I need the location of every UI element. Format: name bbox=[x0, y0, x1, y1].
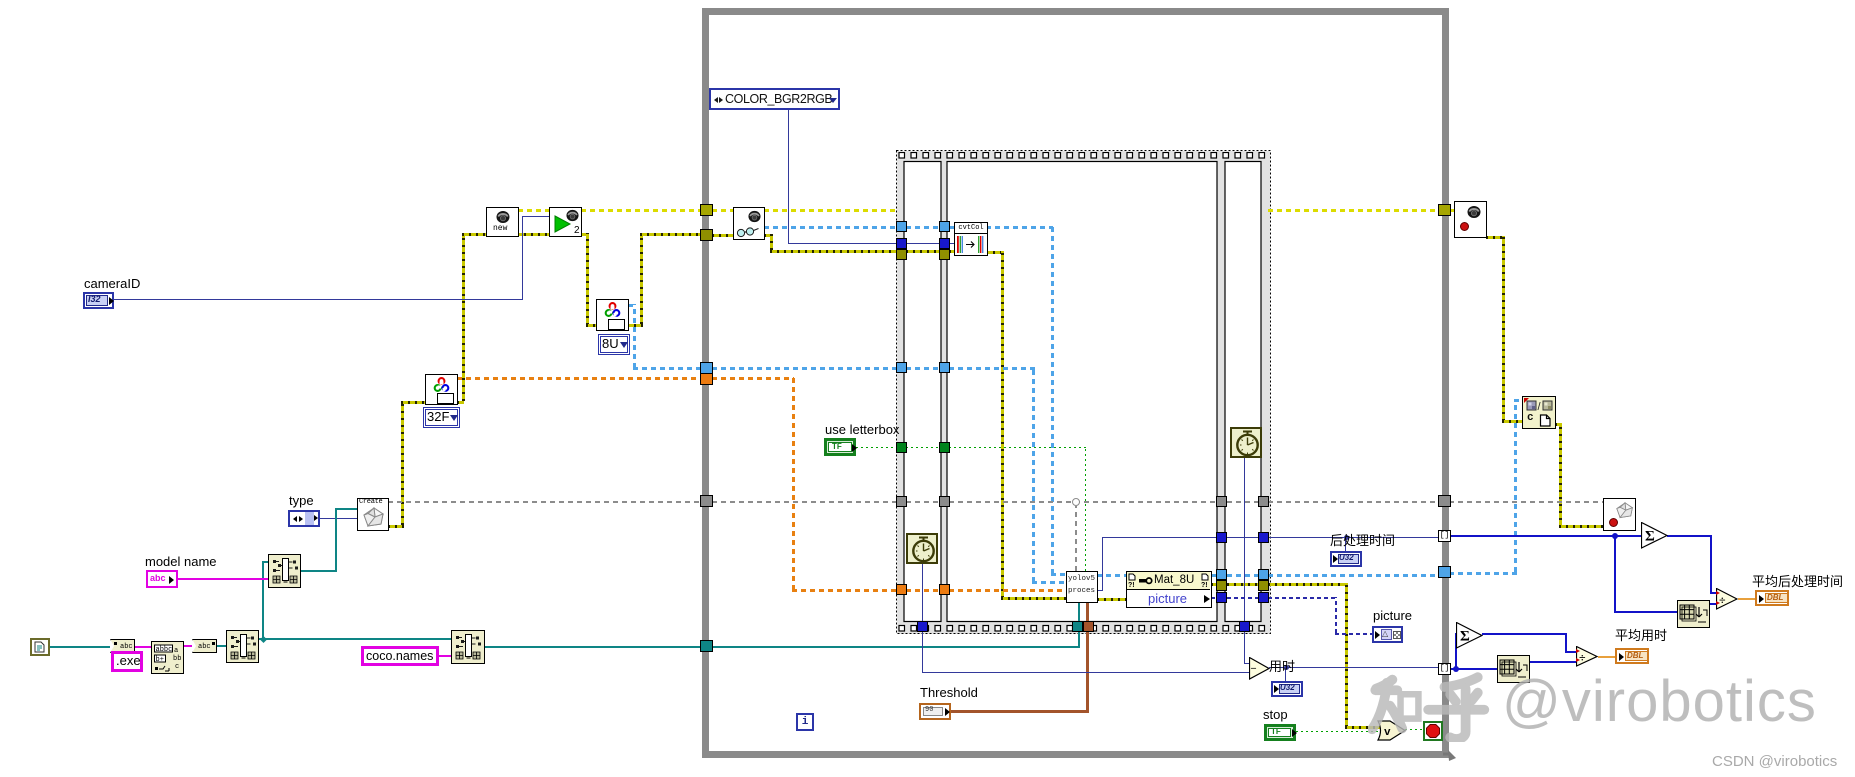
node yolov5 process bbox=[1066, 571, 1098, 603]
wire camera session new->start bbox=[518, 209, 549, 212]
tunnel enum seq separator1 bbox=[939, 238, 950, 249]
node convert to Mat 32F bbox=[425, 374, 458, 405]
node camera new bbox=[486, 207, 519, 237]
node sum1 add array elements bbox=[1641, 522, 1668, 549]
node yolov5 delete bbox=[1603, 498, 1636, 531]
node subtract 用时 bbox=[1249, 657, 1270, 680]
wire use letterbox bool bbox=[856, 447, 896, 448]
tunnel picture seq right edge bbox=[1258, 592, 1269, 603]
wire Mat image grab->cvtCol bbox=[764, 226, 896, 229]
svg-text:–: – bbox=[1250, 663, 1257, 674]
watermark @virobotics bbox=[1502, 669, 1817, 736]
loop indexing tunnel time bbox=[1438, 663, 1451, 675]
node divide2 bbox=[1576, 646, 1598, 667]
node camera release bbox=[1454, 201, 1487, 238]
node current VI path constant bbox=[30, 638, 50, 656]
wire cameraID bbox=[114, 299, 523, 300]
svg-text:c: c bbox=[175, 663, 179, 671]
wire coco.names pink bbox=[439, 655, 451, 657]
label 平均用时 bbox=[1615, 629, 1667, 644]
control type enum bbox=[289, 494, 314, 509]
tunnel threshold bottom band bbox=[1083, 621, 1094, 632]
wire model path teal bbox=[301, 570, 337, 572]
node strip path bbox=[226, 630, 259, 663]
wire camera session sequence->loop edge bbox=[1268, 209, 1440, 212]
wire subtract out 用时 bbox=[1269, 667, 1440, 668]
control cameraID I32 bbox=[84, 277, 140, 292]
wire replaced string pink bbox=[183, 645, 192, 647]
wire names array teal bbox=[485, 646, 703, 648]
flat sequence structure (film strip) bbox=[896, 150, 1271, 635]
indicator picture bbox=[1372, 626, 1403, 643]
node yolov5 create bbox=[357, 498, 389, 531]
wire camera session start->loop bbox=[581, 209, 703, 212]
tunnel error seq left edge bbox=[896, 249, 907, 260]
node sum2 add array elements bbox=[1456, 622, 1483, 649]
wire picture out dashed navy bbox=[1211, 597, 1217, 599]
tunnel Mat seq left edge y226 bbox=[896, 221, 907, 232]
tunnel clock2 bottom band bbox=[1239, 621, 1250, 632]
loop tunnel error left bbox=[700, 229, 713, 241]
while loop border bbox=[702, 8, 1449, 758]
wire post time array bbox=[1451, 535, 1641, 537]
wire threshold brown bbox=[951, 710, 1089, 713]
wire or out bbox=[1405, 729, 1423, 730]
loop corner resize glyph bbox=[1443, 750, 1457, 763]
label picture bbox=[1373, 609, 1412, 624]
svg-text:÷: ÷ bbox=[1719, 593, 1726, 607]
tunnel error out seq separator2 bbox=[1216, 580, 1227, 591]
loop tunnel 32F left bbox=[700, 373, 713, 385]
loop tunnel obj left bbox=[700, 495, 713, 507]
node tick count clock2 bbox=[1230, 427, 1262, 458]
wire clock1 to subtract bbox=[922, 564, 923, 672]
node string to path bbox=[192, 639, 217, 653]
loop tunnel Mat left bbox=[700, 362, 713, 374]
wire camera session loop->grab bbox=[712, 209, 733, 212]
node array size1 bbox=[1677, 600, 1710, 628]
wire folder path teal bbox=[259, 638, 451, 640]
constant coco.names bbox=[361, 646, 439, 666]
node Mat_8U picture cluster bbox=[1126, 571, 1212, 608]
indicator post-process time U32 bbox=[1330, 551, 1362, 567]
wire error close->delete bbox=[1555, 423, 1562, 426]
loop indexing tunnel posttime bbox=[1438, 530, 1451, 542]
tunnel Mat out seq separator2 bbox=[1216, 569, 1227, 580]
loop tunnel Mat right bbox=[1438, 566, 1451, 578]
node build model path bbox=[268, 554, 301, 588]
tunnel bool seq left edge bbox=[896, 442, 907, 453]
wire error from camera release bbox=[1486, 236, 1505, 239]
wire string->path teal bbox=[216, 645, 226, 647]
node cvtColor bbox=[954, 222, 988, 234]
tunnel bool seq separator1 bbox=[939, 442, 950, 453]
wire type enum navy bbox=[320, 518, 357, 519]
svg-text:b+: b+ bbox=[156, 656, 164, 664]
node path to string bbox=[110, 639, 135, 653]
loop tunnel obj right bbox=[1438, 495, 1451, 507]
constant .exe bbox=[111, 651, 143, 672]
loop condition terminal (stop sign) bbox=[1423, 721, 1443, 741]
label 后处理时间 bbox=[1330, 534, 1395, 549]
svg-text:?!: ?! bbox=[1201, 582, 1208, 588]
wire Mat image 8U convert bbox=[628, 304, 636, 307]
wire camera session grab->sequence bbox=[764, 209, 896, 212]
label 平均后处理时间 bbox=[1752, 575, 1843, 590]
control use letterbox boolean bbox=[825, 423, 899, 438]
control stop boolean bbox=[1263, 708, 1288, 723]
tunnel obj seq right edge bbox=[1258, 496, 1269, 507]
svg-text:÷: ÷ bbox=[1579, 651, 1586, 665]
node divide1 bbox=[1716, 588, 1738, 610]
wire model name pink bbox=[178, 578, 268, 580]
node search and replace string bbox=[151, 641, 184, 674]
tunnel 32F seq separator1 bbox=[939, 584, 950, 595]
tunnel posttime seq right edge bbox=[1258, 532, 1269, 543]
wire camera session ->release bbox=[1449, 209, 1455, 212]
loop tunnel camera session right bbox=[1438, 204, 1451, 216]
tunnel obj seq separator2 bbox=[1216, 496, 1227, 507]
tunnel error seq separator1 bbox=[939, 249, 950, 260]
tunnel posttime seq separator2 bbox=[1216, 532, 1227, 543]
node tick count clock1 bbox=[906, 533, 938, 564]
node read names file bbox=[451, 630, 485, 664]
iteration terminal i bbox=[796, 713, 814, 731]
tunnel names bottom band bbox=[1072, 621, 1083, 632]
indicator loop time U32 bbox=[1271, 681, 1303, 697]
wire 32F image DBL bbox=[457, 377, 703, 380]
wire size1 out bbox=[1709, 603, 1716, 605]
wire div1 out orange bbox=[1738, 598, 1755, 600]
indicator avg time DBL bbox=[1615, 648, 1649, 664]
label 用时 bbox=[1269, 660, 1295, 675]
node convert to Mat 8U bbox=[596, 299, 629, 331]
control model name string bbox=[145, 555, 217, 570]
wire yolov5 object refnum bbox=[388, 501, 703, 503]
wire error cluster chain bbox=[388, 525, 404, 528]
loop tunnel names left bbox=[700, 640, 713, 652]
node camera retrieve frame bbox=[733, 207, 765, 240]
svg-text:/: / bbox=[1538, 401, 1542, 412]
wire stop bool bbox=[1296, 731, 1380, 732]
wire div2 out orange bbox=[1598, 656, 1616, 658]
wire color code enum bbox=[788, 109, 789, 243]
tunnel clock1 bottom band bbox=[917, 621, 928, 632]
wire size2 out bbox=[1529, 661, 1576, 663]
svg-text:a: a bbox=[174, 647, 178, 655]
node array size2 bbox=[1497, 655, 1530, 683]
svg-text:Σ: Σ bbox=[1645, 529, 1655, 545]
wire Mat image cvtCol out bbox=[986, 226, 1053, 229]
dropdown 8U bbox=[598, 334, 630, 355]
wire process time out bbox=[1097, 590, 1103, 591]
node close Mat (c) bbox=[1522, 396, 1556, 429]
tunnel picture seq separator2 bbox=[1216, 592, 1227, 603]
tunnel Mat8U seq separator1 bbox=[939, 362, 950, 373]
wire clock2 to subtract bbox=[1244, 458, 1245, 663]
wire VI path bbox=[49, 646, 110, 648]
tunnel obj seq left edge bbox=[896, 496, 907, 507]
wire Mat image process->Mat_8U bbox=[1097, 574, 1127, 577]
loop tunnel camera session left bbox=[700, 204, 713, 216]
watermark 知乎 bbox=[1368, 662, 1490, 742]
wire Mat image Mat_8U->close bbox=[1211, 574, 1217, 577]
node or (stop condition) bbox=[1377, 720, 1406, 742]
indicator avg post time DBL bbox=[1755, 590, 1789, 606]
wire time array bbox=[1451, 668, 1497, 670]
control Threshold numeric bbox=[920, 686, 978, 701]
tunnel error out seq right edge bbox=[1258, 580, 1269, 591]
wire sum1 out bbox=[1667, 535, 1712, 537]
junction path branch bbox=[260, 636, 267, 643]
wire path->string pink bbox=[134, 646, 151, 648]
tunnel Mat seq separator1 y226 bbox=[939, 221, 950, 232]
watermark CSDN @virobotics bbox=[1712, 753, 1837, 770]
tunnel Mat8U seq left edge bbox=[896, 362, 907, 373]
dropdown 32F bbox=[423, 407, 460, 428]
tunnel obj seq separator1 bbox=[939, 496, 950, 507]
junction object refnum branch bbox=[1072, 498, 1080, 506]
tunnel Mat out seq right edge bbox=[1258, 569, 1269, 580]
svg-text:abbc: abbc bbox=[156, 646, 173, 654]
constant COLOR_BGR2RGB enum bbox=[709, 88, 840, 110]
svg-text:?!: ?! bbox=[1128, 582, 1135, 588]
node camera start grab bbox=[549, 207, 582, 237]
svg-text:bb: bb bbox=[173, 655, 181, 663]
tunnel 32F seq left edge bbox=[896, 584, 907, 595]
wire sum2 out bbox=[1482, 633, 1567, 635]
svg-text:Σ: Σ bbox=[1460, 629, 1470, 645]
tunnel enum seq left edge bbox=[896, 238, 907, 249]
